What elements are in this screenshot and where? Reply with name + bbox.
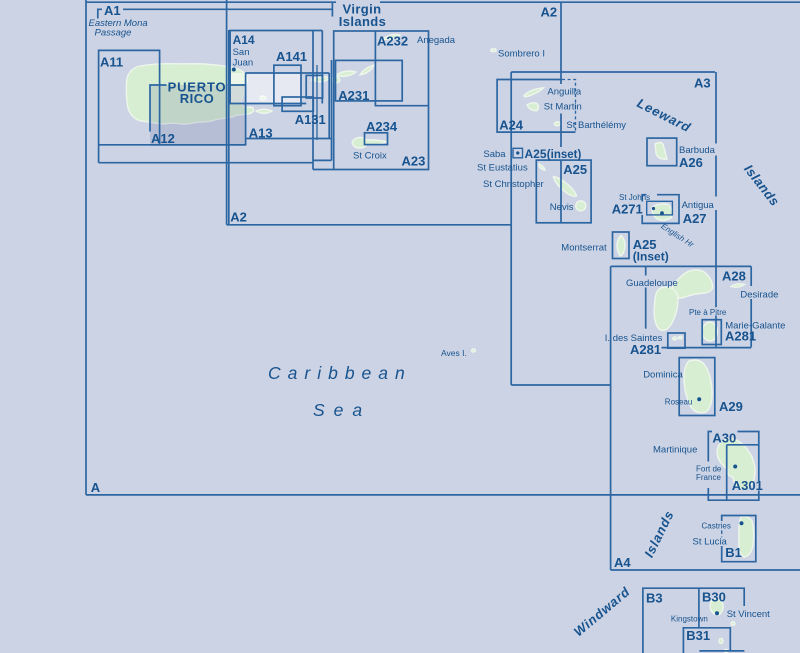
Castries town dot xyxy=(740,521,744,525)
svg-text:B3: B3 xyxy=(646,590,663,605)
chart B31 outline xyxy=(683,628,730,653)
chart A141 outline xyxy=(274,65,301,106)
Kingstown town dot xyxy=(715,611,719,615)
chart A4 bottom edge xyxy=(611,569,800,571)
svg-text:A12: A12 xyxy=(151,131,175,146)
pale chart fill A14 harbour xyxy=(230,73,301,104)
Nevis island xyxy=(576,201,586,211)
svg-text:A: A xyxy=(91,480,101,495)
chart A14 bottom edge xyxy=(229,103,306,105)
Roseau town dot xyxy=(697,397,701,401)
svg-text:A30: A30 xyxy=(712,431,736,446)
svg-text:Sombrero I: Sombrero I xyxy=(498,49,545,60)
svg-text:Nevis: Nevis xyxy=(550,202,574,213)
chart A4 left edge xyxy=(610,266,612,570)
chart A13 top corner tick xyxy=(331,3,333,17)
svg-text:A234: A234 xyxy=(366,119,398,134)
St Lucia island xyxy=(739,517,754,558)
svg-text:A29: A29 xyxy=(719,399,743,414)
chart A2 left edge outer xyxy=(226,0,228,225)
Dominica island xyxy=(684,360,712,413)
chart A12 outline xyxy=(150,85,246,145)
Fort de France town dot xyxy=(733,465,737,469)
svg-text:St Barthélémy: St Barthélémy xyxy=(566,120,626,131)
chart A131 box upper xyxy=(306,75,322,98)
chart A3 top edge xyxy=(511,71,715,73)
svg-text:St Christopher: St Christopher xyxy=(483,179,544,190)
St Johns harbour dots xyxy=(652,207,655,210)
chart A3 left edge xyxy=(510,72,512,385)
svg-text:France: France xyxy=(696,473,721,482)
chart A outline bottom edge xyxy=(86,494,800,496)
svg-text:Guadeloupe: Guadeloupe xyxy=(626,278,678,289)
chart A24 dashed edges xyxy=(562,80,576,133)
chart A25 outline xyxy=(536,160,591,223)
svg-text:Anegada: Anegada xyxy=(417,35,456,46)
svg-text:(inset): (inset) xyxy=(547,149,582,161)
shaded chart A12 fill xyxy=(150,85,246,145)
chart A26 outline xyxy=(647,138,677,166)
Puerto Rico island xyxy=(126,64,253,124)
chart A29 Dominica outline xyxy=(679,358,715,416)
svg-text:B31: B31 xyxy=(686,628,710,643)
chart A271 inner outline xyxy=(647,201,673,215)
Antigua island xyxy=(652,204,672,220)
chart B3 outline xyxy=(643,588,744,653)
svg-text:A141: A141 xyxy=(276,49,307,64)
St John island xyxy=(332,77,340,83)
Anguilla island xyxy=(524,88,544,97)
chart A outline left edge xyxy=(85,0,87,495)
chart A23 outline xyxy=(334,31,429,170)
svg-text:A281: A281 xyxy=(630,342,661,357)
svg-text:RICO: RICO xyxy=(180,91,215,106)
chart A11 bottom edge xyxy=(99,144,246,146)
svg-text:St Eustatius: St Eustatius xyxy=(477,163,528,174)
Sombrero islet xyxy=(491,49,496,52)
chart boundary tick below A28 top xyxy=(645,266,647,328)
svg-text:A25: A25 xyxy=(525,147,547,161)
svg-text:A23: A23 xyxy=(402,154,426,169)
chart A top edge xyxy=(86,1,800,3)
chart A24 outline solid edges xyxy=(497,80,575,133)
Tortola island xyxy=(336,71,356,76)
chart A1 corner bracket xyxy=(98,9,102,18)
Saba symbol dot xyxy=(516,151,519,154)
svg-text:Juan: Juan xyxy=(233,58,254,69)
wire strip x329.2 xyxy=(328,73,330,139)
chart A12 right edge upper xyxy=(245,73,247,85)
svg-text:A4: A4 xyxy=(614,555,631,570)
svg-text:St Martin: St Martin xyxy=(544,101,582,112)
chart A23 bottom extension xyxy=(313,169,334,171)
svg-text:A2: A2 xyxy=(230,210,247,225)
chart A231 outline xyxy=(336,60,403,101)
svg-text:Passage: Passage xyxy=(95,27,132,38)
svg-text:A27: A27 xyxy=(683,211,707,226)
Marie-Galante island xyxy=(702,322,717,341)
svg-text:Saba: Saba xyxy=(483,149,506,160)
svg-text:A131: A131 xyxy=(295,112,326,127)
St Eustatius island xyxy=(539,164,545,170)
svg-text:Castries: Castries xyxy=(702,522,731,531)
chart A281 Saintes outline xyxy=(668,333,685,348)
svg-text:Pte à Pitre: Pte à Pitre xyxy=(689,308,727,317)
svg-text:Antigua: Antigua xyxy=(682,200,715,211)
Virgin Gorda island xyxy=(360,65,374,75)
svg-text:A28: A28 xyxy=(722,269,746,284)
wire strip x317 xyxy=(316,65,318,140)
chart A1 lower edge xyxy=(99,162,313,164)
svg-text:Islands: Islands xyxy=(339,14,387,29)
svg-text:A2: A2 xyxy=(541,5,558,20)
Saba chart symbol square xyxy=(513,148,523,158)
chart A3 right edge xyxy=(715,72,717,347)
chart A281 Marie-Galante outline xyxy=(702,320,721,345)
wire strip x313 xyxy=(312,31,314,170)
chart A14 harbour top edge xyxy=(246,72,330,74)
svg-text:A26: A26 xyxy=(679,155,703,170)
svg-text:Anguilla: Anguilla xyxy=(547,86,582,97)
Guadeloupe Grande-Terre xyxy=(672,270,713,298)
Guadeloupe Basse-Terre xyxy=(654,287,678,331)
St Martin island xyxy=(527,103,539,111)
chart A11 outline xyxy=(99,50,160,162)
svg-text:A11: A11 xyxy=(100,55,123,70)
svg-text:St Vincent: St Vincent xyxy=(727,609,770,620)
St Vincent island xyxy=(710,599,723,614)
svg-text:Aves I.: Aves I. xyxy=(441,348,467,358)
chart A131 box lower xyxy=(282,97,313,111)
Martinique island xyxy=(717,439,755,489)
chart bottom partial edge xyxy=(699,650,744,652)
Culebra island xyxy=(260,96,266,100)
svg-text:A232: A232 xyxy=(377,34,408,49)
chart A234 outline xyxy=(365,133,388,145)
chart A3 bottom edge xyxy=(511,384,610,386)
chart A232 left and bottom edges xyxy=(375,31,428,106)
chart A28 top edge xyxy=(611,265,752,267)
svg-text:Caribbean: Caribbean xyxy=(268,363,412,383)
St Croix island xyxy=(352,137,387,148)
chart A271 outer outline xyxy=(642,195,679,224)
svg-text:A301: A301 xyxy=(732,478,763,493)
chart A28 right edge xyxy=(750,266,752,347)
chart A25 inset Montserrat outline xyxy=(613,232,630,259)
chart A14 outline xyxy=(230,31,322,104)
chart A2 bottom edge xyxy=(227,224,512,226)
chart B1 dashed tick xyxy=(721,531,723,538)
Anegada island xyxy=(383,35,400,40)
svg-text:B1: B1 xyxy=(725,545,742,560)
svg-text:A271: A271 xyxy=(612,202,643,217)
svg-text:A3: A3 xyxy=(694,76,711,91)
Les Saintes islets xyxy=(673,337,677,340)
svg-text:Sea: Sea xyxy=(313,400,371,420)
svg-text:Desirade: Desirade xyxy=(740,289,778,300)
svg-text:B30: B30 xyxy=(702,590,726,605)
svg-text:A24: A24 xyxy=(499,117,524,132)
Montserrat island xyxy=(617,236,625,257)
chart A28 bottom edge xyxy=(662,347,752,349)
St Thomas island xyxy=(312,77,330,82)
wire strip x322.3 xyxy=(321,31,323,104)
San Juan town dot xyxy=(232,68,236,72)
svg-text:Montserrat: Montserrat xyxy=(561,242,607,253)
svg-text:St Lucia: St Lucia xyxy=(693,536,728,547)
svg-text:Dominica: Dominica xyxy=(643,369,683,380)
St Christopher island xyxy=(554,177,577,197)
svg-text:A13: A13 xyxy=(249,126,273,141)
chart A1 top edge xyxy=(123,8,332,10)
chart A2 left edge inner xyxy=(228,30,230,225)
svg-text:A14: A14 xyxy=(233,33,255,47)
Vieques island xyxy=(256,109,272,113)
svg-text:A281: A281 xyxy=(725,329,756,344)
chart A30 outline xyxy=(708,432,759,501)
Grenadines islets xyxy=(731,622,735,626)
Desirade island xyxy=(731,284,745,287)
svg-text:Roseau: Roseau xyxy=(665,397,693,406)
chart A13 right edge xyxy=(331,60,333,160)
chart A2 right edge xyxy=(560,3,562,223)
chart A13 bottom edge xyxy=(246,138,332,140)
Barbuda island xyxy=(655,143,667,160)
St Barthelemy island xyxy=(554,122,560,126)
Aves islet xyxy=(472,349,476,352)
svg-text:A231: A231 xyxy=(338,88,369,103)
svg-text:A25: A25 xyxy=(563,162,587,177)
chart A13 lower corner edge xyxy=(313,159,332,161)
chart B3/B30 divider xyxy=(698,588,700,628)
svg-text:Kingstown: Kingstown xyxy=(671,614,708,623)
svg-text:(Inset): (Inset) xyxy=(633,250,669,264)
chart A301 outline xyxy=(727,445,759,500)
svg-text:San: San xyxy=(233,47,250,58)
svg-text:Martinique: Martinique xyxy=(653,444,697,455)
svg-text:A1: A1 xyxy=(104,3,121,18)
svg-text:St Croix: St Croix xyxy=(353,150,387,161)
chart B1 outline xyxy=(722,516,756,562)
